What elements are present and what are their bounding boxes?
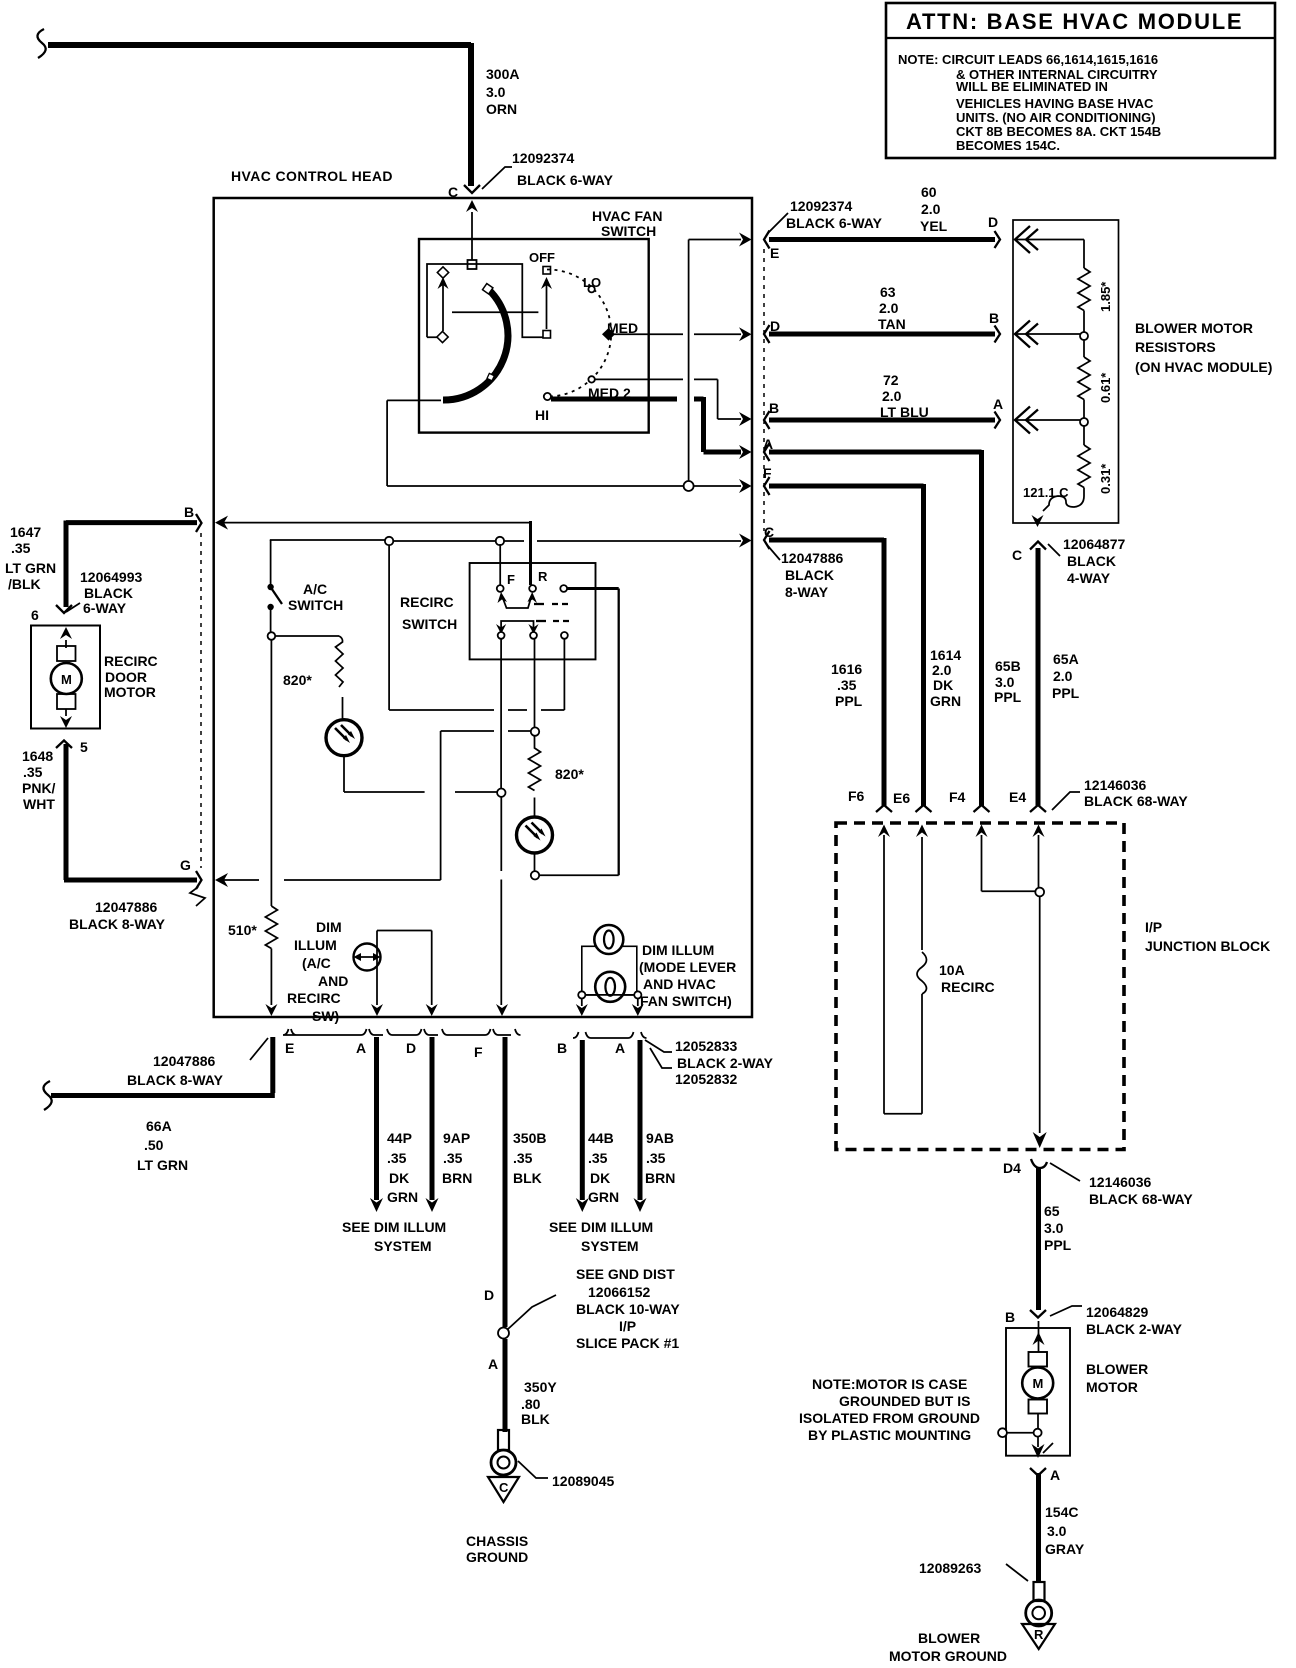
svg-text:AND: AND	[318, 973, 348, 989]
wire 1648 .35 PNK/WHT	[22, 744, 197, 880]
svg-text:3.0: 3.0	[1047, 1523, 1067, 1539]
svg-text:E6: E6	[893, 790, 910, 806]
svg-text:SLICE PACK #1: SLICE PACK #1	[576, 1335, 679, 1351]
wire 820 branch left (A/C dim illum)	[275, 636, 505, 797]
svg-text:CKT 8B BECOMES 8A. CKT 154B: CKT 8B BECOMES 8A. CKT 154B	[956, 124, 1161, 139]
svg-text:A: A	[1050, 1467, 1060, 1483]
svg-text:BLACK 6-WAY: BLACK 6-WAY	[786, 215, 883, 231]
svg-text:8-WAY: 8-WAY	[785, 584, 829, 600]
svg-text:.35: .35	[513, 1150, 533, 1166]
svg-text:5: 5	[80, 739, 88, 755]
blower resistor elements 1.85 0.61 0.31	[1015, 240, 1113, 497]
svg-text:12064993: 12064993	[80, 569, 143, 585]
svg-text:(ON HVAC MODULE): (ON HVAC MODULE)	[1135, 359, 1272, 375]
svg-text:2.0: 2.0	[1053, 668, 1073, 684]
svg-text:SEE GND DIST: SEE GND DIST	[576, 1266, 675, 1282]
svg-text:12064829: 12064829	[1086, 1304, 1149, 1320]
svg-text:PPL: PPL	[994, 689, 1022, 705]
svg-text:C: C	[499, 1480, 509, 1495]
connector blower A	[1030, 1467, 1060, 1483]
svg-text:SEE DIM ILLUM: SEE DIM ILLUM	[342, 1219, 446, 1235]
svg-text:BLACK: BLACK	[785, 567, 834, 583]
BLOWER MOTOR RESISTORS box	[1013, 220, 1272, 523]
svg-text:ATTN: BASE HVAC MODULE: ATTN: BASE HVAC MODULE	[906, 9, 1243, 34]
wire F4 jumper to 65 net	[976, 825, 1045, 897]
svg-text:(MODE LEVER: (MODE LEVER	[639, 959, 736, 975]
svg-text:HI: HI	[535, 407, 549, 423]
svg-text:B: B	[557, 1040, 567, 1056]
svg-text:6: 6	[31, 607, 39, 623]
svg-text:WHT: WHT	[23, 796, 55, 812]
wire 44P .35 DK GRN	[370, 1037, 418, 1212]
fan switch position arc OFF LO MED MED2 HI	[529, 250, 638, 423]
svg-text:PNK/: PNK/	[22, 780, 56, 796]
svg-text:65A: 65A	[1053, 651, 1079, 667]
svg-text:60: 60	[921, 184, 937, 200]
svg-text:B: B	[989, 310, 999, 326]
connector 12064829 BLACK 2-WAY (blower B)	[1005, 1304, 1183, 1337]
RECIRC SWITCH	[400, 544, 596, 659]
svg-text:PPL: PPL	[835, 693, 863, 709]
lamp DIM ILLUM (A/C AND RECIRC SW)	[287, 919, 438, 1024]
connector 12047886 BLACK 8-WAY (G row leader)	[69, 887, 205, 932]
blower motor ground symbol	[889, 1624, 1055, 1664]
svg-text:BLACK 68-WAY: BLACK 68-WAY	[1084, 793, 1188, 809]
svg-text:BLACK 10-WAY: BLACK 10-WAY	[576, 1301, 680, 1317]
svg-text:YEL: YEL	[920, 218, 948, 234]
lamp module DIM ILLUM (MODE LEVER AND HVAC FAN SWITCH)	[576, 925, 736, 1016]
svg-text:BLACK: BLACK	[1067, 553, 1116, 569]
svg-text:BLOWER: BLOWER	[918, 1630, 980, 1646]
svg-text:SW): SW)	[312, 1008, 339, 1024]
wire 65B 3.0 PPL : A down to junction block F4	[769, 450, 1022, 806]
svg-text:44B: 44B	[588, 1130, 614, 1146]
svg-text:0.61*: 0.61*	[1098, 372, 1113, 403]
svg-text:44P: 44P	[387, 1130, 412, 1146]
wire 44B .35 DK GRN	[576, 1040, 619, 1212]
wire 65A 2.0 PPL : resistor C to junction block E4	[1038, 548, 1080, 806]
svg-text:RECIRC: RECIRC	[941, 979, 995, 995]
svg-text:66A: 66A	[146, 1118, 172, 1134]
svg-text:R: R	[538, 569, 548, 584]
fan switch contact-plate	[427, 264, 552, 343]
svg-text:SWITCH: SWITCH	[288, 597, 343, 613]
RECIRC DOOR MOTOR	[31, 626, 158, 756]
svg-text:9AB: 9AB	[646, 1130, 674, 1146]
svg-text:BRN: BRN	[645, 1170, 675, 1186]
svg-text:BLK: BLK	[513, 1170, 542, 1186]
wire 1647 .35 LT GRN/BLK	[5, 521, 197, 608]
svg-text:BLOWER MOTOR: BLOWER MOTOR	[1135, 320, 1253, 336]
svg-text:DOOR: DOOR	[105, 669, 147, 685]
svg-text:E4: E4	[1009, 789, 1026, 805]
svg-text:I/P: I/P	[619, 1318, 636, 1334]
svg-text:BECOMES 154C.: BECOMES 154C.	[956, 138, 1060, 153]
svg-text:LT GRN: LT GRN	[5, 560, 56, 576]
svg-text:BRN: BRN	[442, 1170, 472, 1186]
svg-text:PPL: PPL	[1052, 685, 1080, 701]
svg-text:12146036: 12146036	[1089, 1174, 1152, 1190]
svg-text:0.31*: 0.31*	[1098, 463, 1113, 494]
svg-text:1614: 1614	[930, 647, 961, 663]
control head right edge cavity brackets E D B A F C	[763, 198, 883, 549]
svg-text:A: A	[356, 1040, 366, 1056]
svg-text:1.85*: 1.85*	[1098, 281, 1113, 312]
svg-text:BLACK 2-WAY: BLACK 2-WAY	[1086, 1321, 1183, 1337]
svg-text:1616: 1616	[831, 661, 862, 677]
svg-text:C: C	[1012, 547, 1022, 563]
wire 63 2.0 TAN : D to resistor B	[769, 284, 1000, 343]
svg-text:350Y: 350Y	[524, 1379, 557, 1395]
svg-text:HVAC CONTROL HEAD: HVAC CONTROL HEAD	[231, 168, 393, 184]
wire 65 through junction block	[1033, 825, 1047, 1149]
svg-text:FAN SWITCH): FAN SWITCH)	[640, 993, 732, 1009]
svg-text:12146036: 12146036	[1084, 777, 1147, 793]
connector C 12092374 BLACK 6-WAY (top of control head)	[448, 150, 614, 200]
svg-text:M: M	[1033, 1376, 1044, 1391]
svg-text:UNITS. (NO AIR CONDITIONING): UNITS. (NO AIR CONDITIONING)	[956, 110, 1156, 125]
svg-text:A/C: A/C	[303, 581, 327, 597]
svg-text:VEHICLES HAVING BASE HVAC: VEHICLES HAVING BASE HVAC	[956, 96, 1154, 111]
svg-text:BLACK 8-WAY: BLACK 8-WAY	[127, 1072, 224, 1088]
splice 12066152 I/P SLICE PACK #1	[498, 1266, 680, 1351]
wire recirc sw lower row to F net	[389, 545, 564, 710]
svg-text:DIM ILLUM: DIM ILLUM	[642, 942, 714, 958]
svg-text:TAN: TAN	[878, 316, 906, 332]
svg-text:820*: 820*	[283, 672, 312, 688]
svg-text:D: D	[406, 1040, 416, 1056]
svg-text:300A: 300A	[486, 66, 519, 82]
wire wiper common to cavities E and F	[387, 233, 751, 494]
svg-text:BLACK 6-WAY: BLACK 6-WAY	[517, 172, 614, 188]
wire 1616 .35 PPL : C down to junction block F6	[769, 538, 884, 806]
note SEE DIM ILLUM SYSTEM (left)	[342, 1219, 446, 1254]
svg-text:D: D	[484, 1287, 494, 1303]
svg-text:GRN: GRN	[387, 1189, 418, 1205]
wire 350Y .80 BLK to chassis ground	[488, 1339, 557, 1432]
svg-text:NOTE:MOTOR IS CASE: NOTE:MOTOR IS CASE	[812, 1376, 967, 1392]
svg-text:D4: D4	[1003, 1160, 1021, 1176]
svg-text:.35: .35	[588, 1150, 608, 1166]
wire 9AP .35 BRN	[426, 1037, 473, 1212]
wire C row inside control head (A/C sw, recirc F, to cavity C)	[270, 534, 752, 548]
svg-text:G: G	[180, 857, 191, 873]
svg-text:E: E	[285, 1040, 294, 1056]
svg-text:154C: 154C	[1045, 1504, 1078, 1520]
svg-text:72: 72	[883, 372, 899, 388]
wire MED contact to cavity D	[613, 327, 752, 341]
svg-text:RESISTORS: RESISTORS	[1135, 339, 1216, 355]
svg-text:.35: .35	[443, 1150, 463, 1166]
wire G row inside control head (1648 return)	[220, 731, 531, 880]
resistor box entry chevrons D B A	[1015, 226, 1038, 434]
svg-text:B: B	[769, 400, 779, 416]
wire 1614 2.0 DK GRN : F down to junction block E6	[769, 484, 961, 806]
svg-text:M: M	[61, 672, 72, 687]
svg-text:AND HVAC: AND HVAC	[643, 976, 716, 992]
svg-text:DK: DK	[590, 1170, 610, 1186]
svg-text:PPL: PPL	[1044, 1237, 1072, 1253]
svg-text:.80: .80	[521, 1396, 541, 1412]
svg-text:.35: .35	[837, 677, 857, 693]
svg-text:F: F	[507, 572, 515, 587]
svg-text:BLACK: BLACK	[84, 585, 133, 601]
svg-text:65: 65	[1044, 1203, 1060, 1219]
svg-text:.35: .35	[11, 540, 31, 556]
thermal limiter 121.1 C	[1023, 485, 1084, 527]
svg-text:BY PLASTIC MOUNTING: BY PLASTIC MOUNTING	[808, 1427, 971, 1443]
svg-text:3.0: 3.0	[995, 674, 1015, 690]
svg-text:510*: 510*	[228, 922, 257, 938]
svg-text:12052833: 12052833	[675, 1038, 738, 1054]
wire F net vertical to cavity F	[496, 639, 508, 1016]
svg-text:RECIRC: RECIRC	[400, 594, 454, 610]
I/P JUNCTION BLOCK dashed box	[836, 823, 1270, 1150]
svg-text:12066152: 12066152	[588, 1284, 651, 1300]
wire 350B .35 BLK to splice	[484, 1037, 546, 1327]
svg-text:3.0: 3.0	[486, 84, 506, 100]
svg-text:9AP: 9AP	[443, 1130, 470, 1146]
svg-text:F: F	[474, 1044, 483, 1060]
svg-text:121.1 C: 121.1 C	[1023, 485, 1069, 500]
svg-text:F4: F4	[949, 789, 966, 805]
svg-text:.35: .35	[23, 764, 43, 780]
svg-text:OFF: OFF	[529, 250, 555, 265]
connector 12146036 BLACK 68-WAY (bottom, D4)	[1003, 1159, 1193, 1207]
fuse 10A RECIRC	[878, 825, 995, 1114]
svg-text:3.0: 3.0	[1044, 1220, 1064, 1236]
svg-text:4-WAY: 4-WAY	[1067, 570, 1111, 586]
wire 72 2.0 LT BLU : B to resistor A	[769, 372, 1003, 429]
svg-text:1648: 1648	[22, 748, 53, 764]
HVAC CONTROL HEAD box	[214, 168, 752, 1017]
svg-text:(A/C: (A/C	[302, 955, 331, 971]
svg-text:65B: 65B	[995, 658, 1021, 674]
svg-text:MOTOR: MOTOR	[1086, 1379, 1138, 1395]
svg-text:ISOLATED FROM GROUND: ISOLATED FROM GROUND	[799, 1410, 980, 1426]
connector 12047886 bottom cavities E A D F	[127, 1029, 521, 1088]
svg-text:GROUND: GROUND	[466, 1549, 528, 1565]
svg-text:GROUNDED BUT IS: GROUNDED BUT IS	[839, 1393, 970, 1409]
svg-text:R: R	[1034, 1627, 1044, 1642]
svg-text:BLK: BLK	[521, 1411, 550, 1427]
ground terminal 12089263	[919, 1560, 1052, 1626]
wire HI contact to cavity A	[551, 397, 752, 459]
connector 12047886 BLACK 8-WAY (C row leader)	[768, 546, 844, 600]
wire recirc sw contact3 to lamps common	[539, 589, 619, 876]
connector 12064877 BLACK 4-WAY (resistor C out)	[1012, 536, 1126, 586]
svg-text:.35: .35	[646, 1150, 666, 1166]
svg-text:SWITCH: SWITCH	[402, 616, 457, 632]
wire 154C 3.0 GRAY	[1039, 1473, 1085, 1582]
svg-text:A: A	[488, 1356, 498, 1372]
svg-text:HVAC FAN: HVAC FAN	[592, 208, 663, 224]
svg-text:SYSTEM: SYSTEM	[581, 1238, 639, 1254]
svg-text:12047886: 12047886	[95, 899, 158, 915]
chassis ground symbol	[466, 1477, 528, 1565]
BLOWER MOTOR	[998, 1321, 1148, 1458]
svg-text:1647: 1647	[10, 524, 41, 540]
wire 60 2.0 YEL : E to resistor D	[769, 184, 1000, 248]
connector 12064993 BLACK 6-WAY (recirc door motor pin 6)	[31, 569, 143, 623]
A/C SWITCH	[267, 540, 343, 640]
wire C input into fan switch	[466, 200, 478, 269]
svg-text:GRAY: GRAY	[1045, 1541, 1085, 1557]
svg-text:ILLUM: ILLUM	[294, 937, 337, 953]
ATTN: BASE HVAC MODULE note box	[886, 3, 1275, 158]
svg-text:BLACK 68-WAY: BLACK 68-WAY	[1089, 1191, 1193, 1207]
svg-text:6-WAY: 6-WAY	[83, 600, 127, 616]
svg-text:.35: .35	[387, 1150, 407, 1166]
svg-text:BLACK 8-WAY: BLACK 8-WAY	[69, 916, 166, 932]
wire B row inside control head to recirc switch R	[220, 521, 531, 585]
fan switch wiper arc	[443, 284, 508, 400]
svg-text:BLACK 2-WAY: BLACK 2-WAY	[677, 1055, 774, 1071]
svg-text:A: A	[993, 396, 1003, 412]
wire MED2 contact to cavity B	[595, 379, 752, 426]
note motor case ground	[799, 1376, 980, 1443]
svg-text:LT BLU: LT BLU	[880, 404, 929, 420]
svg-text:LT GRN: LT GRN	[137, 1157, 188, 1173]
svg-text:2.0: 2.0	[882, 388, 902, 404]
svg-text:CHASSIS: CHASSIS	[466, 1533, 528, 1549]
wire 300A 3.0 ORN feed	[37, 29, 519, 186]
svg-text:F6: F6	[848, 788, 865, 804]
svg-text:DK: DK	[389, 1170, 409, 1186]
wire 9AB .35 BRN	[634, 1040, 676, 1212]
svg-text:RECIRC: RECIRC	[104, 653, 158, 669]
svg-text:JUNCTION BLOCK: JUNCTION BLOCK	[1145, 938, 1270, 954]
svg-text:RECIRC: RECIRC	[287, 990, 341, 1006]
svg-text:GRN: GRN	[588, 1189, 619, 1205]
svg-text:820*: 820*	[555, 766, 584, 782]
connector 12146036 BLACK 68-WAY (top, F6 E6 F4 E4)	[848, 777, 1188, 812]
control head left edge cavities B and G	[180, 504, 228, 889]
svg-text:E: E	[770, 245, 779, 261]
connector 12052833/12052832 BLACK 2-WAY cavities B A	[557, 1032, 774, 1087]
svg-text:DIM: DIM	[316, 919, 342, 935]
svg-text:12092374: 12092374	[512, 150, 575, 166]
svg-text:SYSTEM: SYSTEM	[374, 1238, 432, 1254]
HVAC FAN SWITCH box	[419, 208, 663, 433]
svg-text:MOTOR: MOTOR	[104, 684, 156, 700]
svg-text:NOTE: CIRCUIT LEADS 66,1614,16: NOTE: CIRCUIT LEADS 66,1614,1615,1616	[898, 52, 1158, 67]
svg-text:F: F	[763, 465, 772, 481]
svg-text:D: D	[988, 214, 998, 230]
svg-text:BLOWER: BLOWER	[1086, 1361, 1148, 1377]
svg-text:.50: .50	[144, 1137, 164, 1153]
wire 66A .50 LT GRN	[43, 1037, 274, 1173]
note SEE DIM ILLUM SYSTEM (right)	[549, 1219, 653, 1254]
wire 65 3.0 PPL to blower	[1039, 1168, 1072, 1310]
svg-text:/BLK: /BLK	[8, 576, 41, 592]
svg-text:12064877: 12064877	[1063, 536, 1126, 552]
svg-text:12047886: 12047886	[153, 1053, 216, 1069]
svg-text:2.0: 2.0	[879, 300, 899, 316]
svg-text:ORN: ORN	[486, 101, 517, 117]
svg-text:MOTOR GROUND: MOTOR GROUND	[889, 1648, 1007, 1664]
svg-text:2.0: 2.0	[921, 201, 941, 217]
svg-text:B: B	[1005, 1309, 1015, 1325]
ground terminal 12089045	[491, 1430, 615, 1489]
svg-text:10A: 10A	[939, 962, 965, 978]
wire 510 branch to cavity E	[228, 640, 277, 1016]
svg-text:12047886: 12047886	[781, 550, 844, 566]
svg-text:SWITCH: SWITCH	[601, 223, 656, 239]
svg-text:B: B	[184, 504, 194, 520]
svg-text:DK: DK	[933, 677, 953, 693]
svg-text:SEE DIM ILLUM: SEE DIM ILLUM	[549, 1219, 653, 1235]
svg-text:A: A	[615, 1040, 625, 1056]
svg-text:12092374: 12092374	[790, 198, 853, 214]
svg-text:63: 63	[880, 284, 896, 300]
svg-text:12089263: 12089263	[919, 1560, 982, 1576]
wire 820 branch right (recirc dim illum)	[517, 639, 585, 880]
svg-text:WILL BE ELIMINATED IN: WILL BE ELIMINATED IN	[956, 79, 1108, 94]
svg-text:12089045: 12089045	[552, 1473, 615, 1489]
svg-text:350B: 350B	[513, 1130, 546, 1146]
svg-text:I/P: I/P	[1145, 919, 1162, 935]
svg-text:12052832: 12052832	[675, 1071, 738, 1087]
svg-text:2.0: 2.0	[932, 662, 952, 678]
svg-text:GRN: GRN	[930, 693, 961, 709]
